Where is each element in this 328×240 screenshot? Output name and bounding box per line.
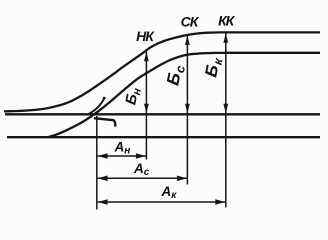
svg-text:КК: КК <box>218 12 236 28</box>
dimension A_n line <box>98 155 146 157</box>
svg-text:Бс: Бс <box>162 62 188 88</box>
turnout centre extension line <box>96 116 98 210</box>
B_s arrowheads <box>185 35 190 45</box>
dimension A_k line <box>98 201 226 203</box>
svg-text:СК: СК <box>181 13 200 29</box>
node KK vertical / B_k arrow line <box>225 33 227 208</box>
switch blade tip knob <box>103 97 106 100</box>
main track upper rail <box>5 113 320 115</box>
switch blade tongue <box>89 99 104 114</box>
B_k arrowheads <box>223 33 228 43</box>
diverging track inner rail curve <box>48 53 320 137</box>
svg-text:НК: НК <box>136 28 155 44</box>
frog (crossing) mark <box>94 118 115 126</box>
svg-text:Ас: Ас <box>133 161 150 178</box>
node SK vertical / B_s arrow line <box>186 35 188 184</box>
node NK vertical / B_n arrow line <box>145 52 147 160</box>
dimension A_s line <box>98 177 187 179</box>
svg-text:Ак: Ак <box>161 184 178 201</box>
B_n arrowheads <box>144 52 149 62</box>
main track lower rail <box>7 136 320 138</box>
svg-text:Ан: Ан <box>114 139 131 156</box>
diverging track outer rail curve <box>4 32 320 111</box>
svg-text:Бк: Бк <box>201 55 225 79</box>
